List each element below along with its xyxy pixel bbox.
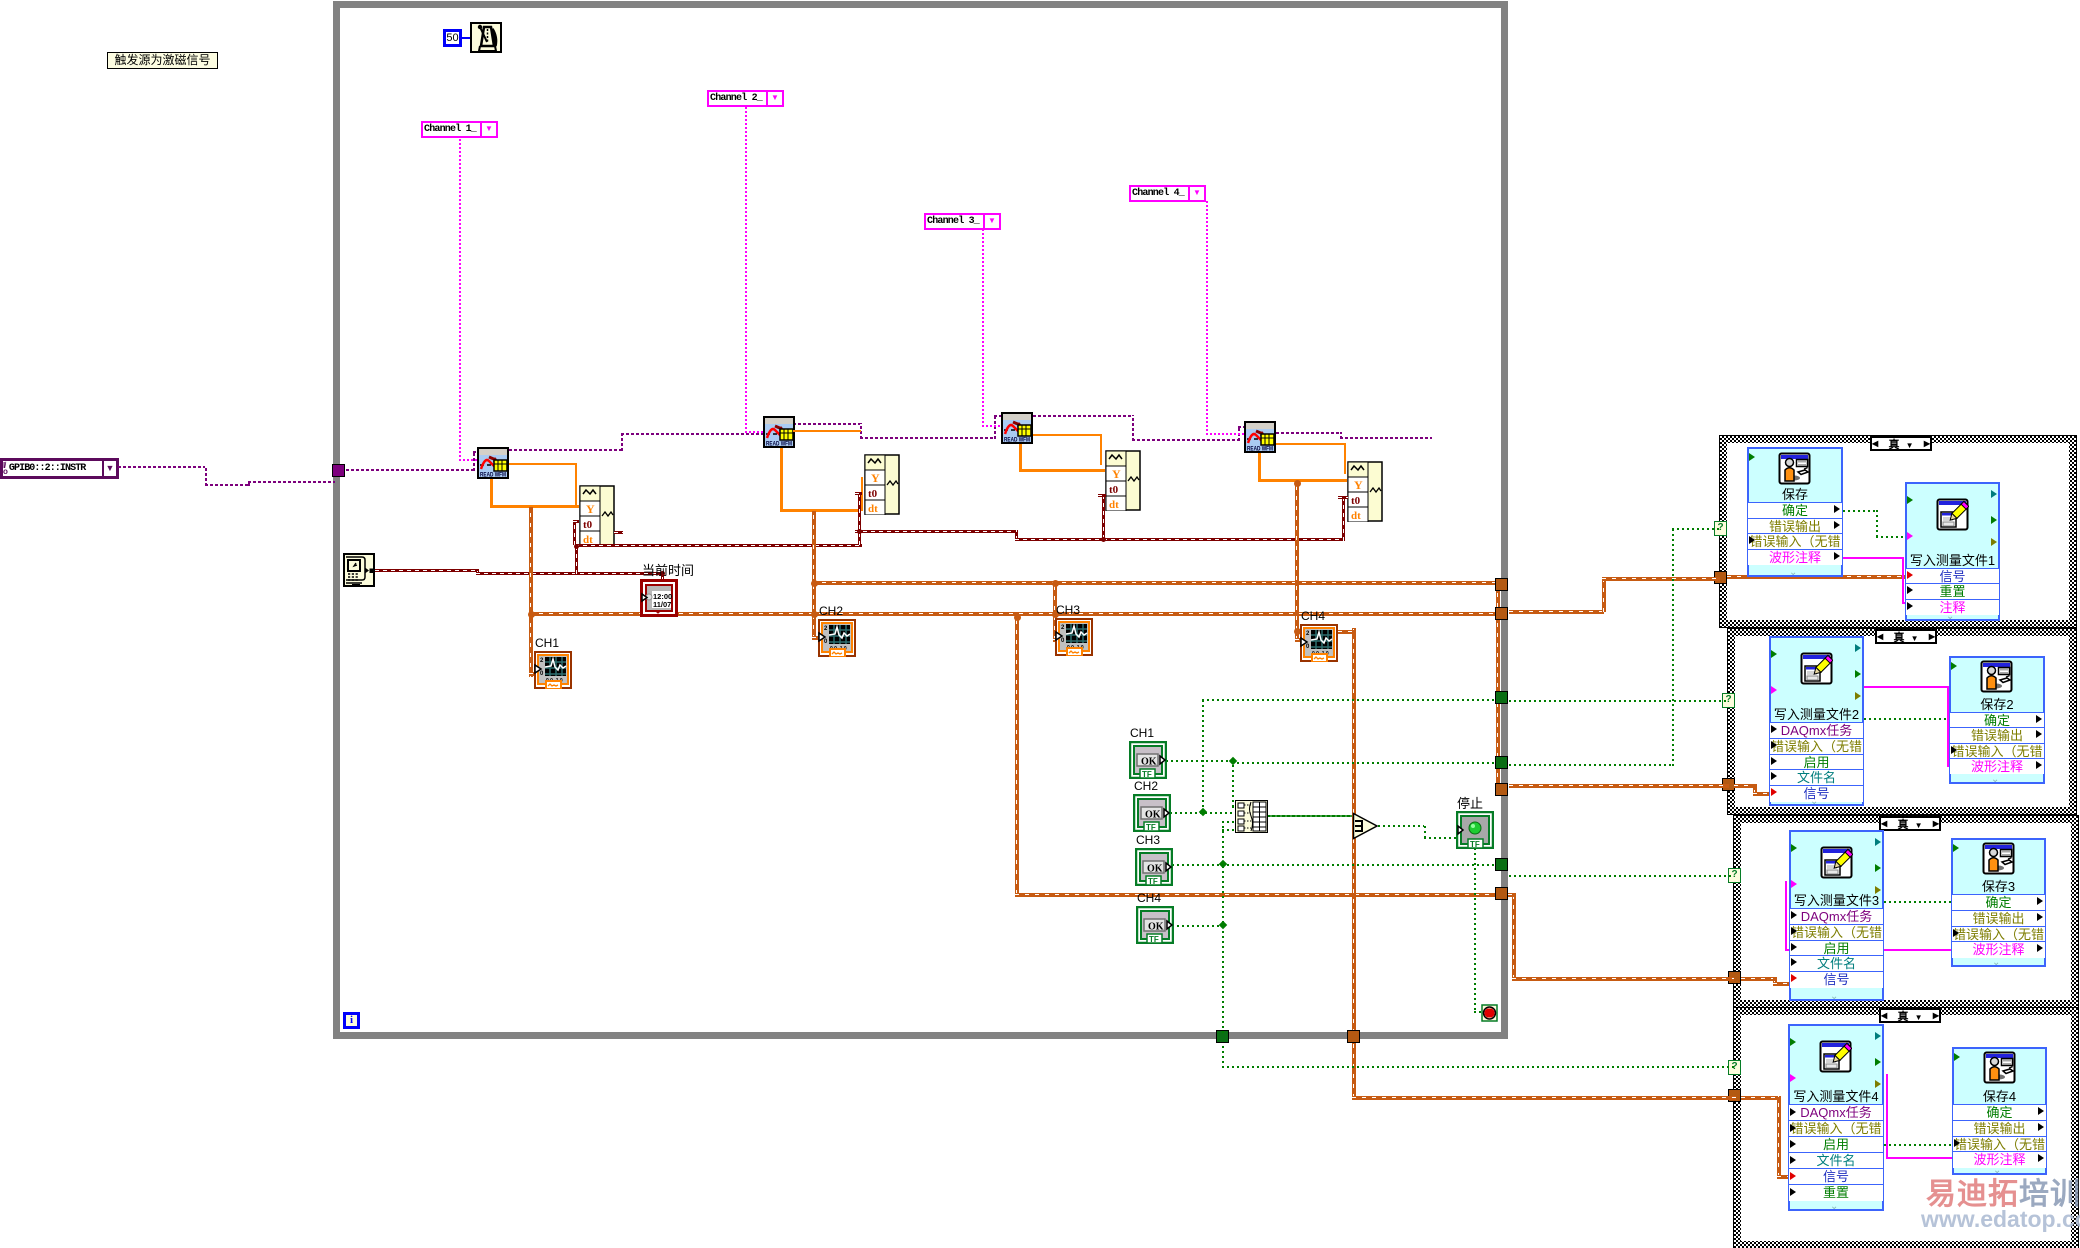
svg-text:READ WFM: READ WFM [1004,437,1030,444]
svg-text:OK: OK [1147,864,1163,875]
svg-text:t0: t0 [1109,484,1119,496]
svg-text:Y: Y [586,502,595,516]
svg-text:OK: OK [1141,757,1157,768]
svg-text:OK: OK [1148,922,1164,933]
svg-text:11/07: 11/07 [653,600,671,609]
svg-text:TF: TF [1146,823,1156,832]
svg-text:TF: TF [1148,877,1158,886]
svg-text:READ WFM: READ WFM [766,441,792,448]
svg-text:TF: TF [1149,935,1159,944]
svg-text:t0: t0 [1351,495,1361,507]
svg-text:OK: OK [1145,810,1161,821]
svg-text:dt: dt [1109,499,1119,511]
svg-text:READ WFM: READ WFM [1247,446,1273,453]
svg-text:t0: t0 [868,488,878,500]
svg-text:READ WFM: READ WFM [480,472,506,479]
svg-text:Y: Y [1354,478,1363,492]
svg-text:dt: dt [868,503,878,515]
svg-text:TF: TF [1470,840,1480,849]
svg-text:t0: t0 [583,519,593,531]
svg-text:Y: Y [871,471,880,485]
svg-text:TF: TF [1142,770,1152,779]
svg-text:Y: Y [1112,467,1121,481]
svg-text:dt: dt [1351,510,1361,522]
